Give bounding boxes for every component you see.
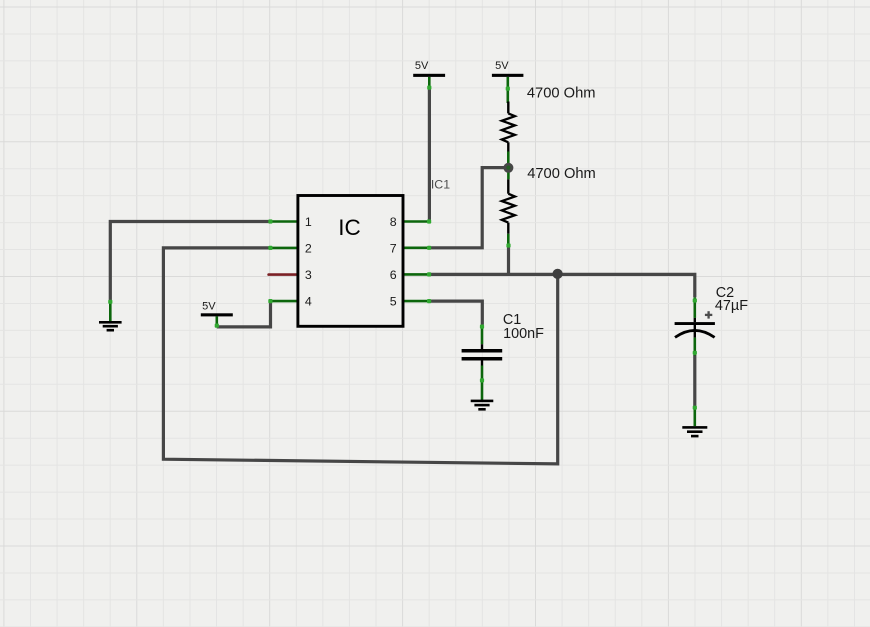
terminal marker pin 8 bbox=[427, 219, 431, 223]
terminal marker pin 4 bbox=[268, 299, 272, 303]
pin 3 stub (unconnected, red) bbox=[269, 273, 298, 276]
wire pin1 to ground GND1 bbox=[110, 222, 271, 302]
svg-text:IC1: IC1 bbox=[431, 177, 450, 191]
pin 1 stub bbox=[271, 220, 298, 223]
ground GND1 (pin1) lead bbox=[109, 301, 112, 322]
wire C2 bottom to ground GND3 bbox=[693, 355, 696, 406]
svg-text:4700 Ohm: 4700 Ohm bbox=[527, 166, 596, 182]
svg-text:5V: 5V bbox=[202, 300, 216, 312]
capacitor C2 47uF polarized bbox=[675, 297, 715, 355]
power symbol 5V (above R1) bbox=[492, 60, 524, 103]
terminal marker pin 5 bbox=[427, 299, 431, 303]
wire 5V supply to pin8 bbox=[428, 89, 431, 222]
pin 6 stub bbox=[402, 273, 429, 276]
svg-text:100nF: 100nF bbox=[503, 326, 544, 342]
svg-text:5V: 5V bbox=[495, 60, 509, 72]
svg-text:47µF: 47µF bbox=[715, 298, 748, 314]
terminal marker pin 6 bbox=[427, 272, 431, 276]
svg-text:3: 3 bbox=[305, 268, 312, 282]
wire 5V supply to pin4 bbox=[217, 301, 271, 327]
terminal marker 5V supply C bbox=[215, 324, 219, 328]
pin 2 stub bbox=[271, 247, 298, 250]
resistor R1 4700 Ohm bbox=[502, 102, 515, 166]
svg-text:IC: IC bbox=[338, 215, 361, 240]
svg-text:8: 8 bbox=[390, 215, 397, 229]
ground GND3 (C2) bbox=[682, 426, 707, 429]
wire C2 to ground lead green bbox=[693, 406, 696, 426]
pin 8 stub bbox=[402, 220, 429, 223]
pin 5 stub bbox=[402, 300, 429, 303]
power symbol 5V (to pin 4) bbox=[201, 300, 233, 327]
wire pin7 to node A (junction of R1/R2) bbox=[429, 168, 505, 248]
svg-text:7: 7 bbox=[390, 241, 397, 255]
terminal marker 5V supply A bbox=[427, 86, 431, 90]
wire pin2 bottom loop to node B bbox=[163, 248, 557, 464]
power symbol 5V (to pin 8) bbox=[413, 60, 445, 90]
ground GND1 bars bbox=[99, 321, 122, 324]
svg-text:4700 Ohm: 4700 Ohm bbox=[527, 86, 596, 102]
ground GND2 (C1) bbox=[471, 400, 494, 403]
svg-text:1: 1 bbox=[305, 215, 312, 229]
svg-text:2: 2 bbox=[305, 241, 312, 255]
terminal marker pin 2 bbox=[268, 246, 272, 250]
terminal marker C1 top bbox=[480, 325, 484, 329]
wire pin6 to node B to capacitor C2 bbox=[429, 274, 695, 297]
terminal marker pin 7 bbox=[427, 246, 431, 250]
resistor R2 4700 Ohm bbox=[502, 165, 515, 247]
node A junction dot (R1/R2/pin7) bbox=[503, 163, 513, 173]
terminal marker C1 bottom bbox=[480, 378, 484, 382]
svg-text:5V: 5V bbox=[415, 60, 429, 72]
pin 4 stub bbox=[271, 300, 298, 303]
IC1 box bbox=[298, 196, 403, 327]
terminal marker pin 1 bbox=[268, 219, 272, 223]
terminal marker R2 bottom bbox=[506, 243, 510, 247]
capacitor C1 100nF bbox=[462, 325, 503, 401]
terminal marker GND3 bbox=[693, 406, 697, 410]
terminal marker C2 bottom bbox=[693, 351, 697, 355]
svg-text:4: 4 bbox=[305, 294, 312, 308]
wire pin5 to capacitor C1 bbox=[429, 301, 482, 325]
node B junction dot (pin6/pin2 loop/C2) bbox=[553, 269, 563, 279]
wire R2 bottom to pin6 net bbox=[507, 247, 510, 275]
terminal marker C2 top bbox=[693, 298, 697, 302]
terminal marker 5V supply B / R1 top bbox=[506, 87, 510, 91]
pin 7 stub bbox=[402, 247, 429, 250]
terminal marker GND1 bbox=[108, 300, 112, 304]
svg-text:6: 6 bbox=[390, 268, 397, 282]
svg-text:5: 5 bbox=[390, 294, 397, 308]
